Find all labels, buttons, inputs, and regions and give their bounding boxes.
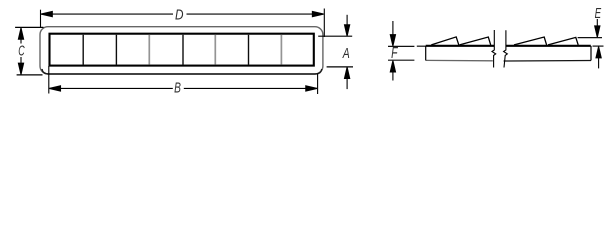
side view: right end cap [590, 46, 592, 61]
inner opening rectangle [50, 34, 314, 66]
vertical cell dividers [83, 35, 281, 65]
outer rounded frame of louver panel (front view) [40, 27, 323, 74]
dimension C line with arrows [18, 28, 23, 74]
svg-text:B: B [174, 80, 181, 97]
louver blade 1 [431, 37, 459, 45]
dimension D line with arrows [41, 11, 324, 16]
louver blade 2 [460, 37, 491, 45]
svg-text:E: E [595, 5, 602, 22]
dimension F ticks [388, 46, 414, 60]
dimension F arrows [390, 21, 395, 81]
svg-text:D: D [175, 7, 184, 24]
break line (left) [492, 30, 496, 68]
dimension A arrows (outside) [345, 15, 350, 89]
label E [595, 5, 602, 22]
side view: frame bottom line [426, 59, 591, 62]
label A [342, 45, 350, 62]
side view: left end cap [425, 46, 427, 61]
dimension E arrows [595, 19, 602, 68]
svg-text:F: F [391, 45, 398, 62]
label F [391, 45, 398, 62]
louver blade 4 [548, 37, 578, 45]
break line (right) [504, 30, 508, 67]
dimension B extension lines [49, 66, 318, 94]
svg-text:C: C [18, 43, 24, 60]
svg-text:A: A [342, 45, 350, 62]
dimension C extension ticks [15, 27, 43, 75]
side view: small lip line left of end cap [417, 45, 426, 47]
label C [18, 43, 24, 60]
label D [175, 7, 184, 24]
dimension A extension ticks [318, 36, 353, 67]
dimension E ticks [578, 38, 604, 47]
dimension D extension lines [41, 9, 325, 38]
louver blade 3 [514, 37, 547, 45]
side view: top edge thick band (left segment) [426, 45, 591, 47]
dimension B line with arrows [49, 86, 317, 91]
label B [174, 80, 181, 97]
